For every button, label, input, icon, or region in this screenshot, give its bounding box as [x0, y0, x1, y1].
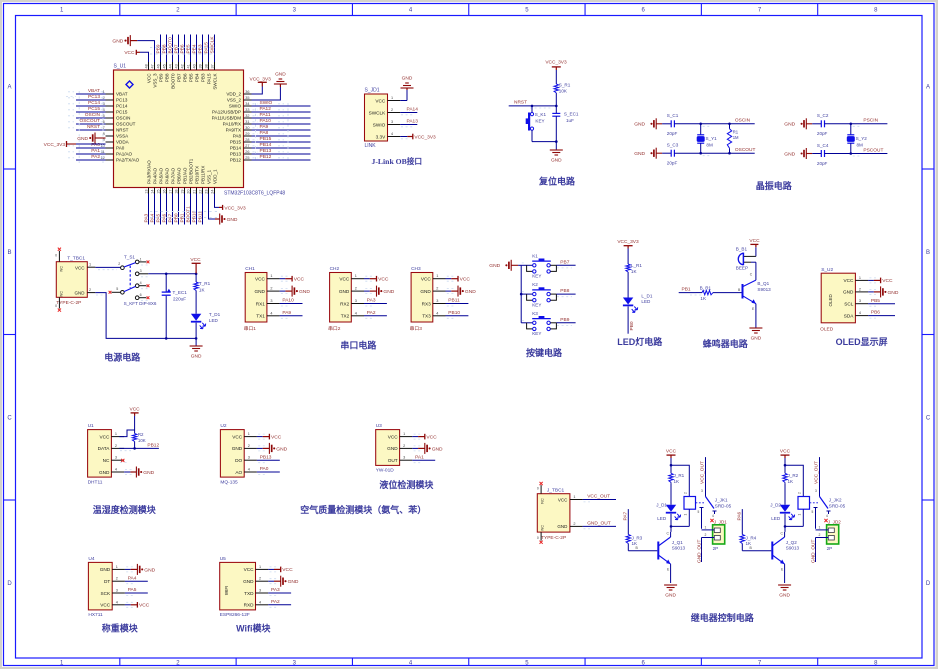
svg-text:J_TBC1: J_TBC1	[547, 488, 565, 494]
connector S_JD1 pins	[369, 96, 401, 139]
svg-text:45: 45	[163, 64, 167, 68]
wire reset node NRST	[509, 93, 557, 108]
wire MCU left nets	[66, 88, 106, 163]
connector CH1 body	[244, 266, 267, 332]
svg-text:8M: 8M	[857, 142, 864, 147]
svg-text:1K: 1K	[746, 541, 753, 546]
svg-text:VCC: VCC	[666, 449, 677, 455]
svg-text:BOOT0: BOOT0	[168, 37, 174, 54]
svg-text:蜂鸣器电路: 蜂鸣器电路	[703, 338, 749, 349]
wire driver J_R1 to led	[670, 484, 672, 505]
svg-text:3: 3	[116, 589, 118, 593]
svg-text:PB14: PB14	[260, 142, 272, 148]
svg-text:PA15: PA15	[206, 73, 211, 84]
transistor J_Q1 S9013	[658, 532, 685, 572]
svg-text:J_D1: J_D1	[656, 503, 667, 508]
svg-text:VDD_1: VDD_1	[212, 169, 217, 184]
svg-text:OSCIN: OSCIN	[85, 112, 101, 118]
key S_K1 KEY	[526, 106, 547, 142]
svg-text:VCC: VCC	[375, 98, 386, 103]
wire driver vcc node	[670, 458, 690, 497]
power CH3 VCC	[446, 276, 471, 283]
module U2 MQ-135 body	[220, 423, 244, 485]
svg-text:SCL: SCL	[844, 302, 854, 307]
svg-text:电源电路: 电源电路	[104, 352, 141, 363]
svg-text:GND: GND	[77, 136, 88, 142]
svg-text:3.3V: 3.3V	[376, 134, 387, 139]
svg-text:21: 21	[193, 190, 197, 194]
svg-text:PB0/AO: PB0/AO	[176, 167, 181, 184]
ground driver J_Q2 GND	[778, 585, 791, 599]
svg-text:3: 3	[140, 269, 142, 273]
svg-text:2: 2	[270, 287, 272, 291]
wire MCU top nets	[150, 35, 216, 63]
svg-text:S_C1: S_C1	[667, 113, 679, 118]
svg-text:TYPE-C-2P: TYPE-C-2P	[541, 535, 566, 541]
svg-text:OLED显示屏: OLED显示屏	[836, 337, 888, 347]
svg-text:CH1: CH1	[245, 266, 255, 272]
svg-text:NC: NC	[59, 291, 63, 297]
switch T_S1 stub contacts	[109, 261, 150, 301]
svg-text:B_R1: B_R1	[700, 285, 712, 290]
svg-text:1: 1	[89, 262, 91, 266]
svg-text:VCC_OUT: VCC_OUT	[587, 494, 610, 500]
power CH1 VCC	[280, 276, 305, 283]
module U4 pins	[100, 565, 125, 608]
power U5 VCC	[268, 567, 293, 574]
svg-text:31: 31	[245, 120, 249, 124]
svg-text:KEY: KEY	[532, 302, 541, 307]
svg-text:3: 3	[259, 589, 261, 593]
capacitor T_EC1 220uF	[162, 273, 188, 339]
svg-text:14: 14	[151, 190, 155, 194]
wire CH1 PA9	[280, 310, 303, 318]
svg-text:VCC_3V3: VCC_3V3	[414, 134, 436, 140]
svg-text:PA7: PA7	[168, 213, 174, 222]
wire switch output to VCC node	[139, 273, 197, 276]
connector CH2 body	[328, 266, 351, 332]
svg-text:KEY: KEY	[532, 331, 541, 336]
svg-text:SWIO: SWIO	[229, 104, 242, 109]
svg-text:PB13: PB13	[260, 148, 272, 154]
svg-text:PB10/TX: PB10/TX	[194, 166, 199, 184]
svg-text:SWIO: SWIO	[260, 100, 273, 106]
svg-text:5: 5	[698, 510, 700, 514]
svg-text:PB7: PB7	[176, 73, 181, 82]
svg-text:24: 24	[211, 190, 215, 194]
svg-text:VCC: VCC	[271, 434, 282, 440]
svg-text:PB5: PB5	[871, 298, 880, 304]
connector CH3 pins	[420, 274, 445, 318]
wire CH2 PA2	[364, 310, 387, 318]
svg-text:PA10: PA10	[260, 118, 272, 124]
svg-text:28: 28	[245, 138, 249, 142]
power U4 GND symbol	[125, 564, 156, 575]
svg-text:2: 2	[798, 492, 802, 494]
svg-text:16: 16	[163, 190, 167, 194]
svg-text:32: 32	[245, 114, 249, 118]
svg-text:42: 42	[181, 64, 185, 68]
svg-text:2: 2	[115, 444, 117, 448]
svg-text:PB9: PB9	[156, 44, 162, 53]
svg-text:4: 4	[355, 311, 357, 315]
svg-text:VCC: VCC	[75, 265, 85, 270]
wire U2 PA0	[257, 466, 280, 474]
svg-text:PB11: PB11	[448, 298, 460, 304]
wire MCU right nets	[252, 100, 311, 162]
svg-text:5: 5	[812, 510, 814, 514]
svg-text:18: 18	[175, 190, 179, 194]
svg-text:U5: U5	[220, 556, 226, 562]
svg-text:2: 2	[248, 444, 250, 448]
title buzzer circuit	[703, 338, 749, 349]
svg-text:T_TBC1: T_TBC1	[67, 256, 85, 262]
wire driver base	[742, 544, 771, 551]
power crystal S_C3 GND symbol	[634, 148, 662, 159]
svg-text:VDDA: VDDA	[116, 140, 130, 145]
svg-text:GND: GND	[299, 289, 310, 295]
power CH2 GND symbol	[364, 286, 395, 297]
svg-text:GND_OUT: GND_OUT	[810, 539, 816, 563]
svg-text:空气质量检测模块（氨气、苯）: 空气质量检测模块（氨气、苯）	[300, 504, 426, 515]
svg-text:1: 1	[684, 514, 688, 516]
crystal S_Y2 8M	[847, 123, 867, 155]
svg-text:VSS_3: VSS_3	[152, 73, 157, 88]
svg-text:PA5/AO: PA5/AO	[158, 167, 163, 184]
connector CH3 body	[410, 266, 433, 332]
svg-text:VCC: VCC	[190, 257, 201, 263]
svg-text:2: 2	[116, 577, 118, 581]
capacitor S_C2 20pF	[812, 113, 851, 136]
svg-text:8M: 8M	[706, 142, 713, 147]
svg-text:PB8: PB8	[560, 288, 569, 294]
svg-text:PA6: PA6	[736, 511, 742, 520]
svg-text:GND: GND	[420, 289, 431, 294]
wire driver base net PA6	[736, 509, 742, 534]
svg-text:GND: GND	[75, 291, 86, 296]
switch T_S1 S_KFT DIP-8X6	[116, 254, 157, 306]
svg-text:PA5: PA5	[156, 213, 162, 222]
svg-text:DT: DT	[104, 579, 110, 584]
svg-text:GND: GND	[387, 446, 398, 451]
svg-text:GND: GND	[557, 524, 568, 529]
svg-text:PA1/AO: PA1/AO	[116, 152, 133, 157]
svg-text:J_Q1: J_Q1	[672, 540, 683, 545]
diode L_D1 LED	[623, 293, 653, 312]
wire OLED SCL PB5	[868, 298, 895, 306]
svg-text:B_Q1: B_Q1	[757, 281, 769, 286]
svg-text:PB6: PB6	[182, 73, 187, 82]
wire key PB7	[522, 259, 576, 268]
svg-text:PA7: PA7	[622, 511, 628, 520]
svg-text:PB14: PB14	[230, 146, 242, 151]
svg-text:VCC: VCC	[232, 434, 243, 439]
svg-text:44: 44	[169, 64, 173, 68]
svg-text:RX2: RX2	[340, 301, 350, 306]
ground buzzer GND	[749, 328, 762, 342]
connector CH1 pins	[254, 274, 279, 318]
svg-text:SDA: SDA	[844, 313, 855, 318]
wire key PB9	[522, 317, 576, 326]
wire reset bottom	[532, 140, 558, 150]
svg-text:PB12: PB12	[260, 154, 272, 160]
svg-text:37: 37	[211, 64, 215, 68]
svg-text:GND: GND	[276, 446, 287, 452]
svg-text:OSCOUT: OSCOUT	[79, 118, 100, 124]
svg-text:1: 1	[819, 525, 821, 529]
svg-text:5: 5	[116, 287, 118, 291]
svg-text:PB15: PB15	[230, 140, 242, 145]
svg-text:19: 19	[181, 190, 185, 194]
svg-text:PB13: PB13	[260, 454, 272, 460]
wire U5 PA3	[268, 587, 291, 595]
svg-text:33: 33	[245, 108, 249, 112]
svg-text:C: C	[7, 415, 12, 421]
svg-text:PB8: PB8	[162, 44, 168, 53]
title relay control circuit	[691, 612, 755, 623]
svg-text:TX3: TX3	[422, 314, 431, 319]
title crystal circuit	[756, 180, 793, 191]
power crystal S_C4 GND symbol	[784, 148, 812, 159]
svg-text:20pF: 20pF	[817, 161, 828, 166]
svg-text:2: 2	[705, 533, 707, 537]
svg-text:VCC: VCC	[255, 277, 266, 282]
svg-text:20pF: 20pF	[667, 161, 678, 166]
svg-text:0: 0	[55, 254, 57, 258]
resistor T_R1 1K	[194, 273, 211, 293]
svg-text:4: 4	[436, 311, 438, 315]
svg-text:D: D	[7, 581, 12, 587]
svg-text:1K: 1K	[631, 269, 638, 274]
border row ticks and letters	[4, 84, 935, 587]
svg-text:13: 13	[145, 190, 149, 194]
svg-text:PB8: PB8	[164, 73, 169, 82]
wire key PB8	[522, 288, 576, 297]
svg-text:GND: GND	[143, 470, 154, 476]
svg-text:串口3: 串口3	[410, 326, 423, 332]
svg-text:NRST: NRST	[87, 124, 100, 130]
svg-text:PA0: PA0	[91, 142, 100, 148]
svg-text:S9013: S9013	[786, 546, 800, 551]
svg-text:NRST: NRST	[514, 100, 527, 106]
svg-text:VCC: VCC	[339, 277, 350, 282]
svg-text:1uF: 1uF	[566, 118, 574, 123]
svg-text:DATA: DATA	[98, 446, 111, 451]
power crystal S_C1 GND symbol	[634, 118, 662, 129]
svg-text:KEY: KEY	[535, 119, 544, 124]
relay J_JK2 switch	[810, 457, 846, 529]
wire driver GND_OUT	[696, 538, 702, 564]
power VDDA VCC_3V3	[44, 141, 106, 148]
node power bottom junction	[195, 337, 198, 346]
svg-text:PB5: PB5	[186, 44, 192, 53]
module U3 pins	[387, 432, 412, 463]
svg-text:PA9: PA9	[282, 310, 291, 316]
svg-text:KEY: KEY	[532, 274, 541, 279]
svg-text:VCC_3V3: VCC_3V3	[44, 142, 66, 148]
title LED circuit	[617, 336, 663, 347]
resistor J_R4 1K	[740, 535, 757, 546]
svg-text:VCC_OUT: VCC_OUT	[813, 461, 819, 484]
svg-text:SCK: SCK	[101, 591, 112, 596]
svg-text:NC: NC	[103, 458, 110, 463]
svg-text:VCC: VCC	[843, 278, 854, 283]
connector T_TBC1 TYPE-C-2P body	[56, 256, 87, 306]
svg-text:PA7/AO: PA7/AO	[170, 167, 175, 184]
buzzer B_B1 BEEP	[736, 246, 756, 270]
svg-text:PA3: PA3	[271, 587, 280, 593]
svg-text:J-Link OB接口: J-Link OB接口	[372, 156, 423, 166]
power U3 GND symbol	[412, 443, 443, 454]
power driver J_R1 VCC	[666, 449, 677, 458]
svg-text:PA1: PA1	[91, 148, 100, 154]
wire CH3 PB11	[446, 298, 469, 306]
resistor R2 10K pullup	[119, 407, 145, 449]
wire CH1 PA10	[280, 298, 303, 306]
wire buzzer emitter	[755, 304, 757, 328]
svg-text:2: 2	[89, 288, 91, 292]
power J-Link VCC_3V3	[400, 134, 436, 141]
svg-text:1: 1	[436, 274, 438, 278]
svg-text:VCC_3V3: VCC_3V3	[545, 59, 567, 65]
svg-text:PC13: PC13	[88, 94, 100, 100]
svg-text:20pF: 20pF	[667, 131, 678, 136]
svg-text:U4: U4	[88, 556, 94, 562]
transistor B_Q1 S9013	[743, 280, 772, 311]
key K2 KEY	[521, 282, 556, 307]
svg-text:30: 30	[245, 126, 249, 130]
svg-text:R2: R2	[138, 432, 144, 437]
MCU left pins	[101, 90, 140, 163]
svg-text:SWIO: SWIO	[373, 122, 386, 127]
svg-text:PB7: PB7	[560, 259, 569, 265]
diode T_D1 LED	[191, 293, 221, 338]
svg-text:VCC: VCC	[780, 449, 791, 455]
svg-text:LED: LED	[771, 516, 781, 521]
svg-text:20: 20	[187, 190, 191, 194]
svg-text:GND: GND	[634, 122, 645, 128]
svg-text:2: 2	[819, 533, 821, 537]
svg-text:Wifi模块: Wifi模块	[236, 623, 271, 634]
svg-text:PB4: PB4	[192, 44, 198, 53]
svg-text:VCC: VCC	[139, 603, 150, 609]
resistor S_R1 10K	[554, 79, 571, 94]
power U1 GND symbol	[124, 467, 155, 478]
svg-text:27: 27	[245, 144, 249, 148]
svg-text:34: 34	[245, 102, 249, 106]
svg-text:S_Y2: S_Y2	[856, 136, 868, 141]
wire driver GND_OUT	[810, 538, 816, 564]
MCU top pins	[145, 62, 218, 90]
svg-text:TX1: TX1	[256, 314, 265, 319]
connector T_TBC1 shell pins	[55, 248, 61, 312]
power buzzer VCC	[749, 238, 760, 247]
svg-text:29: 29	[245, 132, 249, 136]
title U2	[300, 504, 426, 515]
MCU U1 STM32F103C8T6 body	[114, 64, 286, 197]
svg-text:A: A	[926, 84, 930, 90]
svg-text:R1: R1	[733, 129, 739, 134]
wire U1 DATA PB12	[119, 443, 159, 451]
diode J_D2 LED	[770, 503, 794, 521]
svg-text:PB6: PB6	[871, 310, 880, 316]
svg-text:PC13: PC13	[116, 98, 128, 103]
svg-text:VCC: VCC	[124, 50, 135, 56]
svg-text:PB11: PB11	[198, 211, 204, 223]
svg-text:T_S1: T_S1	[124, 254, 135, 259]
svg-text:VCC_OUT: VCC_OUT	[699, 461, 705, 484]
svg-text:S_U2: S_U2	[821, 267, 833, 273]
wire OLED SDA PB6	[868, 310, 895, 318]
svg-text:VSSA: VSSA	[116, 134, 129, 139]
wire OSCOUT	[701, 147, 756, 156]
capacitor S_EC1 1uF	[552, 106, 579, 142]
svg-text:RXD: RXD	[244, 603, 255, 608]
svg-text:1: 1	[116, 565, 118, 569]
svg-text:4: 4	[248, 468, 250, 472]
svg-text:PB12: PB12	[230, 158, 242, 163]
connector J_TBC1 shell pins	[537, 482, 543, 544]
svg-text:PA11/USB/DM: PA11/USB/DM	[212, 116, 242, 121]
wire U3 PA1	[412, 454, 435, 462]
svg-text:YW-01D: YW-01D	[376, 468, 395, 474]
svg-text:4: 4	[116, 600, 118, 604]
svg-text:OLED: OLED	[820, 327, 834, 333]
connector J_JD2 2P	[816, 519, 842, 551]
svg-text:VCC: VCC	[882, 278, 893, 284]
svg-text:VSS_1: VSS_1	[206, 169, 211, 184]
connector T_TBC1 pin 2 wire	[87, 288, 196, 339]
svg-text:0: 0	[537, 536, 539, 540]
display S_U2 OLED body	[820, 267, 855, 333]
svg-text:3: 3	[270, 299, 272, 303]
svg-text:3: 3	[403, 456, 405, 460]
svg-text:GND_OUT: GND_OUT	[696, 539, 702, 563]
svg-text:PA6/AO: PA6/AO	[164, 167, 169, 184]
svg-text:VCC: VCC	[426, 434, 437, 440]
wire MCU bottom nets	[144, 194, 219, 225]
wire buzzer to collector	[750, 262, 756, 280]
svg-text:称重模块: 称重模块	[102, 623, 139, 634]
svg-text:S_K1: S_K1	[535, 112, 547, 117]
svg-text:VCC: VCC	[749, 238, 760, 244]
svg-text:4: 4	[391, 132, 393, 136]
title serial circuit	[340, 339, 377, 350]
svg-text:26: 26	[245, 150, 249, 154]
svg-text:1: 1	[115, 432, 117, 436]
svg-text:2: 2	[573, 522, 575, 526]
svg-text:GND: GND	[634, 151, 645, 157]
svg-text:GND: GND	[144, 567, 155, 573]
svg-text:4: 4	[859, 311, 861, 315]
svg-text:SWCLK: SWCLK	[212, 74, 217, 90]
power CH3 GND symbol	[446, 286, 477, 297]
svg-text:S_C4: S_C4	[817, 143, 829, 148]
svg-text:BEEP: BEEP	[736, 266, 748, 271]
svg-text:PB2/BOOT1: PB2/BOOT1	[188, 158, 193, 184]
wire driver led to collector node	[670, 514, 673, 532]
svg-text:VCC: VCC	[99, 434, 110, 439]
svg-text:PA5: PA5	[128, 587, 137, 593]
svg-text:20pF: 20pF	[817, 131, 828, 136]
svg-text:PC15: PC15	[116, 110, 128, 115]
svg-text:PB5: PB5	[188, 73, 193, 82]
svg-text:GND: GND	[843, 290, 854, 295]
wire J_TBC1 VCC_OUT	[570, 494, 616, 502]
svg-text:PA12: PA12	[260, 106, 272, 112]
svg-text:串口1: 串口1	[244, 326, 257, 332]
svg-text:2P: 2P	[827, 546, 833, 551]
